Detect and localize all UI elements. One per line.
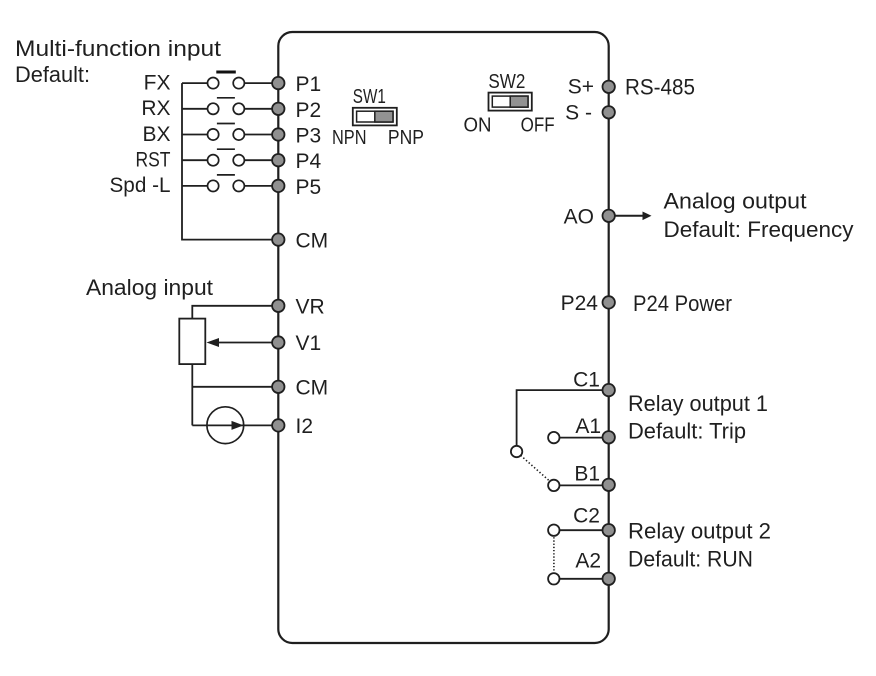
svg-text:RX: RX [141, 97, 170, 120]
svg-text:NPN: NPN [332, 127, 367, 149]
relay 2 A2 contact [548, 573, 559, 584]
svg-text:C1: C1 [573, 369, 600, 392]
Spd-L switch contact [182, 175, 273, 192]
svg-text:Default: Trip: Default: Trip [628, 418, 746, 443]
svg-text:RS-485: RS-485 [625, 75, 695, 100]
svg-text:PNP: PNP [388, 127, 424, 149]
svg-text:RST: RST [136, 149, 171, 172]
RST switch contact [182, 149, 273, 166]
relay 2 moving contact dotted [553, 537, 555, 572]
RX switch contact [182, 98, 273, 115]
svg-text:S -: S - [565, 102, 592, 125]
svg-text:P3: P3 [296, 125, 322, 148]
FX switch contact [182, 72, 273, 89]
svg-text:Analog input: Analog input [86, 275, 213, 300]
svg-text:FX: FX [144, 71, 171, 94]
svg-text:Analog output: Analog output [664, 188, 807, 213]
CM analog wire [192, 386, 272, 388]
svg-text:OFF: OFF [521, 115, 555, 137]
svg-text:P24: P24 [561, 292, 599, 315]
terminal S- [603, 106, 615, 118]
relay 1 B1 contact [548, 480, 559, 491]
switch SW1 [332, 86, 424, 149]
svg-text:B1: B1 [574, 463, 600, 486]
switch SW2 [464, 71, 555, 136]
svg-text:AO: AO [564, 205, 594, 228]
terminal C1 [603, 384, 615, 396]
svg-text:V1: V1 [296, 332, 322, 355]
terminal P1 [272, 77, 284, 89]
relay 1 A1 contact [548, 432, 559, 443]
svg-text:S+: S+ [568, 76, 594, 99]
I2 wire [192, 421, 272, 430]
terminal A1 [603, 431, 615, 443]
BX switch contact [182, 124, 273, 141]
pot bottom wire [191, 364, 193, 425]
svg-text:Default: Frequency: Default: Frequency [664, 217, 854, 242]
svg-text:CM: CM [296, 376, 329, 399]
svg-text:P24 Power: P24 Power [633, 291, 732, 316]
relay 1 C1 wire [517, 390, 603, 446]
svg-text:SW2: SW2 [488, 71, 525, 93]
svg-text:SW1: SW1 [353, 86, 386, 108]
svg-text:P5: P5 [296, 176, 322, 199]
svg-text:C2: C2 [573, 504, 600, 527]
svg-text:I2: I2 [296, 415, 314, 438]
terminal A2 [603, 573, 615, 585]
terminal P5 [272, 180, 284, 192]
terminal P3 [272, 128, 284, 140]
svg-text:Multi-function input: Multi-function input [15, 36, 221, 61]
svg-text:BX: BX [142, 123, 170, 146]
main terminal block outline [278, 32, 608, 643]
svg-text:ON: ON [464, 115, 492, 137]
potentiometer [179, 319, 205, 365]
svg-text:A1: A1 [575, 415, 601, 438]
terminal B1 [603, 479, 615, 491]
terminal CM analog [272, 381, 284, 393]
svg-text:Relay output 1: Relay output 1 [628, 391, 768, 416]
current source I2 [207, 407, 244, 444]
C2 wire [559, 529, 602, 531]
terminal C2 [603, 524, 615, 536]
svg-text:Relay output 2: Relay output 2 [628, 519, 771, 544]
svg-text:P4: P4 [296, 150, 322, 173]
svg-text:P2: P2 [296, 99, 322, 122]
terminal S+ [603, 81, 615, 93]
V1 wiper arrow wire [207, 338, 273, 347]
relay 1 moving contact dashed [521, 455, 550, 481]
AO arrow [615, 212, 652, 221]
terminal P24 [603, 296, 615, 308]
B1 wire [559, 484, 602, 486]
svg-text:Default:: Default: [15, 62, 90, 87]
terminal VR [272, 300, 284, 312]
A2 wire [559, 578, 602, 580]
svg-text:A2: A2 [575, 549, 601, 572]
svg-text:Spd -L: Spd -L [110, 174, 171, 197]
VR wire [192, 306, 272, 319]
terminal P2 [272, 103, 284, 115]
terminal V1 [272, 336, 284, 348]
relay 1 pole contact [511, 446, 522, 457]
terminal CM [272, 233, 284, 245]
svg-text:VR: VR [296, 295, 325, 318]
svg-text:Default: RUN: Default: RUN [628, 547, 753, 572]
relay 2 C2 contact [548, 525, 559, 536]
A1 wire [559, 437, 602, 439]
terminal AO [603, 210, 615, 222]
svg-text:P1: P1 [296, 73, 322, 96]
terminal I2 [272, 419, 284, 431]
terminal P4 [272, 154, 284, 166]
svg-text:CM: CM [296, 230, 329, 253]
digital input bus wire [182, 83, 273, 240]
